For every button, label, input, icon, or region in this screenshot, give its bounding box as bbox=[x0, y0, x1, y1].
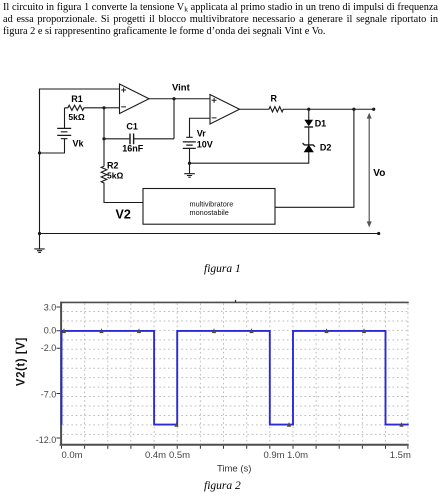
wire R1 left to battery Vk bbox=[64, 108, 66, 129]
chart y tick labels bbox=[36, 302, 57, 445]
trace sample markers bbox=[62, 328, 404, 427]
label 10V bbox=[197, 139, 213, 149]
svg-text:R: R bbox=[271, 94, 278, 104]
chart x-axis title Time (s) bbox=[217, 464, 251, 475]
chart y-axis ticks bbox=[57, 307, 61, 438]
svg-text:0.4m: 0.4m bbox=[145, 450, 166, 461]
chart x tick labels bbox=[61, 450, 411, 461]
svg-text:3.0: 3.0 bbox=[44, 302, 57, 312]
wire Vr to ground junction bbox=[189, 148, 191, 163]
label R bbox=[271, 94, 278, 104]
junction D1 top bbox=[307, 108, 310, 111]
svg-text:D2: D2 bbox=[320, 143, 332, 153]
label C1 bbox=[126, 122, 138, 132]
label 5kOhm R2 bbox=[107, 170, 123, 180]
label D2 bbox=[320, 143, 332, 153]
svg-text:V2: V2 bbox=[116, 208, 131, 222]
junction Vr ground node bbox=[188, 162, 191, 165]
svg-text:16nF: 16nF bbox=[122, 144, 144, 154]
svg-text:0.9m: 0.9m bbox=[263, 450, 284, 461]
battery Vk bbox=[57, 128, 71, 138]
label R2 bbox=[107, 160, 119, 170]
junction node A (R1 right / op-amp1 inverting) bbox=[102, 106, 105, 109]
junction left rail Vk bbox=[38, 151, 41, 154]
svg-text:Vo: Vo bbox=[373, 168, 385, 179]
capacitor C1 bbox=[104, 134, 174, 145]
trace V2 square wave bbox=[62, 331, 409, 425]
label multivibratore bbox=[190, 199, 234, 208]
wire C1 right up to Vint node bbox=[173, 99, 175, 139]
label Vo bbox=[373, 168, 385, 179]
chart horizontal gridlines bbox=[63, 312, 409, 435]
svg-text:-2.0: -2.0 bbox=[41, 343, 57, 353]
svg-text:0.0m: 0.0m bbox=[61, 450, 82, 461]
op-amp U2 bbox=[210, 95, 240, 125]
chart plot frame top border bbox=[60, 300, 409, 303]
svg-text:V2(t) [V]: V2(t) [V] bbox=[16, 337, 28, 386]
wire node A to op-amp1 - input bbox=[104, 107, 120, 109]
svg-text:10V: 10V bbox=[197, 139, 213, 149]
wire op-amp2 - input to Vr bbox=[190, 118, 211, 137]
wire Vo branch down to multivibrator output bbox=[275, 109, 354, 207]
resistor R1 bbox=[65, 105, 105, 110]
multivibrator block bbox=[143, 189, 275, 225]
svg-text:D1: D1 bbox=[315, 119, 327, 129]
caption figura 2 bbox=[204, 480, 241, 492]
svg-text:5kΩ: 5kΩ bbox=[107, 170, 123, 180]
node output rail end dot bbox=[372, 108, 375, 111]
svg-text:-7.0: -7.0 bbox=[41, 389, 57, 399]
svg-text:Time (s): Time (s) bbox=[217, 464, 251, 475]
label V2 bbox=[116, 208, 131, 222]
svg-text:5kΩ: 5kΩ bbox=[68, 112, 84, 122]
chart vertical gridlines bbox=[85, 304, 408, 445]
arrow Vo measurement bbox=[367, 113, 372, 228]
label Vk bbox=[73, 138, 85, 148]
label Vr bbox=[197, 129, 207, 139]
ground below Vr bbox=[184, 163, 195, 177]
label Vint bbox=[172, 83, 191, 94]
label 5kOhm R1 bbox=[68, 112, 84, 122]
wire ground node to D2 anode bbox=[190, 152, 309, 163]
label monostabile bbox=[190, 208, 229, 217]
junction node A / C1 left bbox=[102, 137, 105, 140]
label 16nF bbox=[122, 144, 144, 154]
svg-text:Vint: Vint bbox=[172, 83, 191, 94]
svg-text:C1: C1 bbox=[126, 122, 138, 132]
wire vertical node A down to R2 bbox=[103, 108, 105, 166]
svg-text:monostabile: monostabile bbox=[190, 208, 229, 217]
wire op-amp1 output to op-amp2 + input bbox=[149, 98, 210, 100]
svg-text:0.0: 0.0 bbox=[44, 326, 57, 336]
op-amp U1 bbox=[120, 84, 150, 114]
junction bottom-left ground bbox=[38, 232, 41, 235]
resistor R2 bbox=[101, 166, 143, 202]
chart x-axis line bbox=[60, 444, 409, 446]
label D1 bbox=[315, 119, 327, 129]
svg-text:1.0m: 1.0m bbox=[287, 450, 308, 461]
svg-text:-12.0: -12.0 bbox=[36, 435, 57, 445]
svg-text:Vk: Vk bbox=[73, 138, 85, 148]
battery Vr bbox=[183, 137, 196, 148]
wire bottom ground rail bbox=[40, 233, 379, 235]
resistor R bbox=[240, 107, 374, 112]
svg-text:0.5m: 0.5m bbox=[169, 450, 190, 461]
svg-text:R1: R1 bbox=[71, 94, 83, 104]
chart y-axis line bbox=[60, 302, 62, 446]
svg-text:R2: R2 bbox=[107, 160, 119, 170]
chart x-axis ticks bbox=[62, 446, 408, 449]
svg-text:1.5m: 1.5m bbox=[390, 450, 411, 461]
diode D1 bbox=[304, 109, 313, 145]
zener diode D2 bbox=[303, 143, 315, 152]
node Vint junction bbox=[172, 97, 175, 100]
svg-text:Vr: Vr bbox=[197, 129, 207, 139]
label R1 bbox=[71, 94, 83, 104]
node bottom rail end dot bbox=[377, 232, 380, 235]
wire top-left feedback to op-amp1 + input bbox=[40, 89, 120, 234]
ground bottom-left bbox=[34, 234, 44, 253]
caption figura 1 bbox=[204, 263, 241, 275]
chart y-axis title V2(t) [V] bbox=[16, 337, 28, 386]
junction Vo branch bbox=[352, 108, 355, 111]
wire battery Vk to left rail bbox=[40, 139, 65, 153]
